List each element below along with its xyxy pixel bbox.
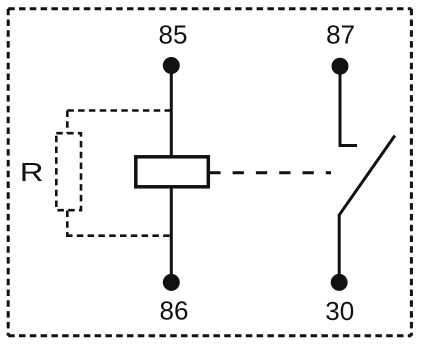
wire pin87 fixed contact — [340, 66, 357, 145]
switch blade — [339, 136, 395, 216]
dashed actuation linkage coil to switch — [209, 171, 331, 174]
wire coil to pin86 — [170, 187, 173, 282]
pin 85 terminal dot — [163, 57, 180, 74]
pin 87 terminal dot — [332, 58, 349, 75]
svg-text:85: 85 — [159, 20, 188, 50]
svg-text:R: R — [20, 157, 44, 187]
pin 30 terminal dot — [331, 274, 348, 291]
relay case dashed border left — [7, 9, 10, 336]
dashed wire resistor bottom stub — [66, 211, 69, 236]
relay case dashed border right — [410, 9, 413, 336]
relay case dashed border bottom — [8, 334, 411, 337]
wire blade pivot to pin30 — [338, 214, 341, 282]
svg-text:87: 87 — [326, 20, 355, 50]
svg-text:86: 86 — [160, 296, 189, 326]
dashed wire resistor bottom horizontal — [66, 234, 172, 237]
dashed wire resistor top stub — [66, 111, 69, 134]
svg-text:30: 30 — [325, 296, 354, 326]
relay case dashed border top — [8, 7, 411, 10]
resistor R dashed body — [56, 133, 81, 210]
pin 86 terminal dot — [163, 274, 180, 291]
relay coil — [136, 157, 209, 187]
dashed wire resistor top horizontal — [67, 109, 171, 112]
wire pin85 to coil — [170, 66, 173, 158]
